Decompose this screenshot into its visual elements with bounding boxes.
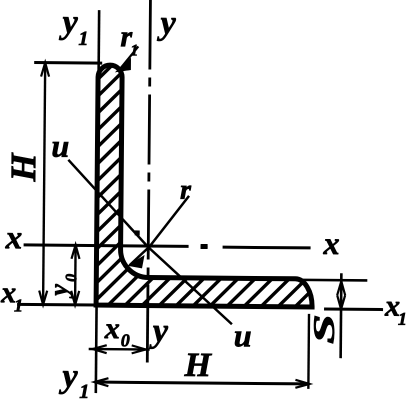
r1 leader line xyxy=(118,46,138,71)
H top extension line xyxy=(34,61,102,65)
stray speck xyxy=(135,230,140,235)
hatching of angle section xyxy=(0,6,409,324)
y0 bottom arrow (down) xyxy=(71,291,79,305)
svg-text:1: 1 xyxy=(130,42,138,59)
y0 dimension line xyxy=(74,245,77,305)
axis x1 left segment xyxy=(17,303,96,307)
S top arrow (up) xyxy=(337,281,345,295)
H left dimension line xyxy=(43,63,45,305)
axis x (centroid horizontal) xyxy=(24,245,189,246)
H bottom left arrow xyxy=(94,378,108,386)
S top extension line xyxy=(289,278,367,281)
label S (rotated) xyxy=(308,314,341,344)
S bottom arrow (down) xyxy=(337,295,345,309)
axis x1 right segment xyxy=(324,308,383,312)
u axis diagonal xyxy=(67,160,233,324)
svg-text:r: r xyxy=(180,175,192,206)
y0 top arrow (up) xyxy=(71,245,79,259)
svg-text:0: 0 xyxy=(63,274,80,282)
svg-text:1: 1 xyxy=(79,381,89,403)
arrowheads xyxy=(38,59,347,389)
H top arrow (up) xyxy=(41,63,49,77)
x0 left arrow xyxy=(93,345,107,353)
label y0 (rotated) xyxy=(44,274,80,299)
svg-text:u: u xyxy=(234,317,252,353)
r leader arrow xyxy=(129,256,143,267)
x0 right arrow xyxy=(132,345,146,353)
svg-text:S: S xyxy=(308,314,341,344)
svg-text:x: x xyxy=(5,220,23,256)
r1 leader arrow xyxy=(117,59,130,71)
svg-text:1: 1 xyxy=(14,295,23,315)
svg-text:1: 1 xyxy=(78,28,88,50)
axis y1 (vertical through left face) xyxy=(96,10,99,393)
svg-text:y: y xyxy=(44,284,73,299)
svg-text:1: 1 xyxy=(398,309,407,329)
r leader line xyxy=(129,195,189,266)
angle profile outline xyxy=(96,65,314,307)
H bottom dimension line xyxy=(94,382,309,384)
svg-text:x: x xyxy=(322,225,339,261)
S dimension line xyxy=(339,273,342,358)
right extension line for bottom H xyxy=(307,314,310,389)
svg-text:H: H xyxy=(183,347,212,384)
axis y (centroid, dash-dot) xyxy=(148,0,151,306)
x axis dot xyxy=(201,244,208,249)
H bottom arrow (down) xyxy=(39,291,47,305)
x0 dimension line xyxy=(89,348,150,351)
H bottom right arrow xyxy=(295,380,309,388)
svg-text:x: x xyxy=(104,312,120,345)
svg-text:u: u xyxy=(51,128,69,164)
svg-text:H: H xyxy=(3,152,43,182)
svg-text:0: 0 xyxy=(121,330,130,350)
